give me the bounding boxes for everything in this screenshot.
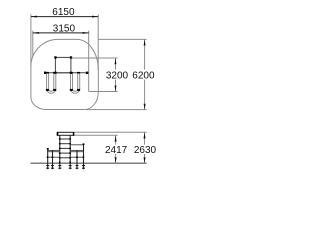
svg-text:3150: 3150 xyxy=(53,23,76,34)
svg-text:2630: 2630 xyxy=(134,145,157,156)
svg-text:6200: 6200 xyxy=(132,70,155,81)
svg-text:2417: 2417 xyxy=(105,145,128,156)
svg-text:6150: 6150 xyxy=(52,7,75,18)
svg-text:3200: 3200 xyxy=(106,70,129,81)
